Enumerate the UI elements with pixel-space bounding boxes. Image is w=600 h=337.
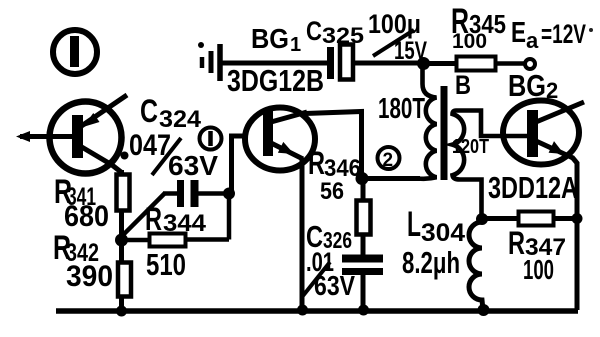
inductor L304 [469,222,483,310]
supply feed point symbol (rotated ground) [198,42,220,81]
label R344 510 [145,201,207,282]
svg-text:390: 390 [66,260,113,293]
input wire with arrow [16,131,74,142]
junction dot R347/emitter [572,213,583,224]
wire node1 up to BG1 base [232,136,245,193]
svg-text:3DG12B: 3DG12B [227,63,324,98]
svg-text:100μ: 100μ [368,9,421,39]
svg-text:63V: 63V [168,150,218,181]
junction dot C326/rail [358,305,369,316]
resistor R345 [423,57,524,71]
svg-text:3DD12A: 3DD12A [488,170,578,205]
wire BG1 collector to node 2 [305,112,362,179]
svg-text:1: 1 [290,34,301,56]
svg-text:R: R [308,145,325,181]
svg-text:63V: 63V [314,270,355,301]
svg-text:8.2μh: 8.2μh [402,245,460,280]
label R345 100 [451,2,506,53]
svg-text:B: B [455,70,471,100]
wire BG1 emitter to ground [300,158,305,310]
svg-text:100: 100 [452,30,487,53]
top supply wire [222,61,328,66]
stage badge circled 1 [53,30,97,74]
svg-text:56: 56 [320,178,344,205]
label R346 56 [308,145,361,205]
transistor Q1 (left PNP stage) [50,95,128,174]
node 1 junction dot [223,188,235,200]
svg-text:E: E [511,17,526,49]
supply terminal [525,59,535,69]
svg-text:2: 2 [383,150,394,171]
label R342 390 [53,229,113,293]
svg-text:C: C [306,16,322,46]
svg-text:=12V: =12V [541,19,586,49]
wire BG2 emitter down [572,157,577,310]
label C326 .01/63V [302,219,355,301]
svg-text:510: 510 [146,247,186,282]
ground rail [56,308,578,314]
svg-text:R: R [145,201,162,237]
transformer core [441,86,448,180]
capacitor C324 [163,180,229,207]
resistor R346 [357,182,371,256]
junction dot secondary/L304/R347 [476,213,488,225]
transformer B primary winding 180T [362,66,437,179]
svg-text:325: 325 [322,23,364,48]
capacitor C326 [342,259,383,311]
resistor R347 [482,212,577,226]
capacitor C325 [331,45,420,80]
svg-text:C: C [140,93,158,129]
svg-text:304: 304 [421,219,465,247]
svg-text:BG: BG [508,68,546,103]
label Ea=12V [589,28,593,32]
circled node 1 [200,128,222,150]
svg-text:a: a [526,28,539,53]
junction dot R342/rail [116,306,127,317]
svg-text:344: 344 [163,210,207,237]
svg-text:2: 2 [546,78,558,103]
label .047/63V [121,129,219,181]
resistor R344 [126,193,229,247]
svg-text:BG: BG [251,23,289,54]
label R341 680 [54,173,109,233]
wire: node A diagonal to C324 [120,193,165,238]
resistor R341 [117,170,130,237]
junction dot emitter/rail [297,305,308,316]
wire node2 to transformer primary [362,176,420,181]
transistor BG1 [245,108,315,171]
resistor R342 [118,240,131,311]
svg-text:L: L [407,205,421,244]
node 2 junction dot [356,172,369,185]
junction dot L304/rail [478,304,490,316]
svg-text:100: 100 [523,254,554,285]
label R347 100 [508,225,566,285]
svg-text:120T: 120T [452,136,489,158]
label 100u/15V [368,9,427,65]
svg-text:180T: 180T [378,93,425,125]
transistor BG2 [503,101,584,165]
transformer secondary winding 120T [453,111,528,216]
circled node 2 [378,147,400,171]
node A junction dot [115,234,128,247]
junction dot supply node [417,57,430,70]
label L304 8.2uh [402,205,465,280]
